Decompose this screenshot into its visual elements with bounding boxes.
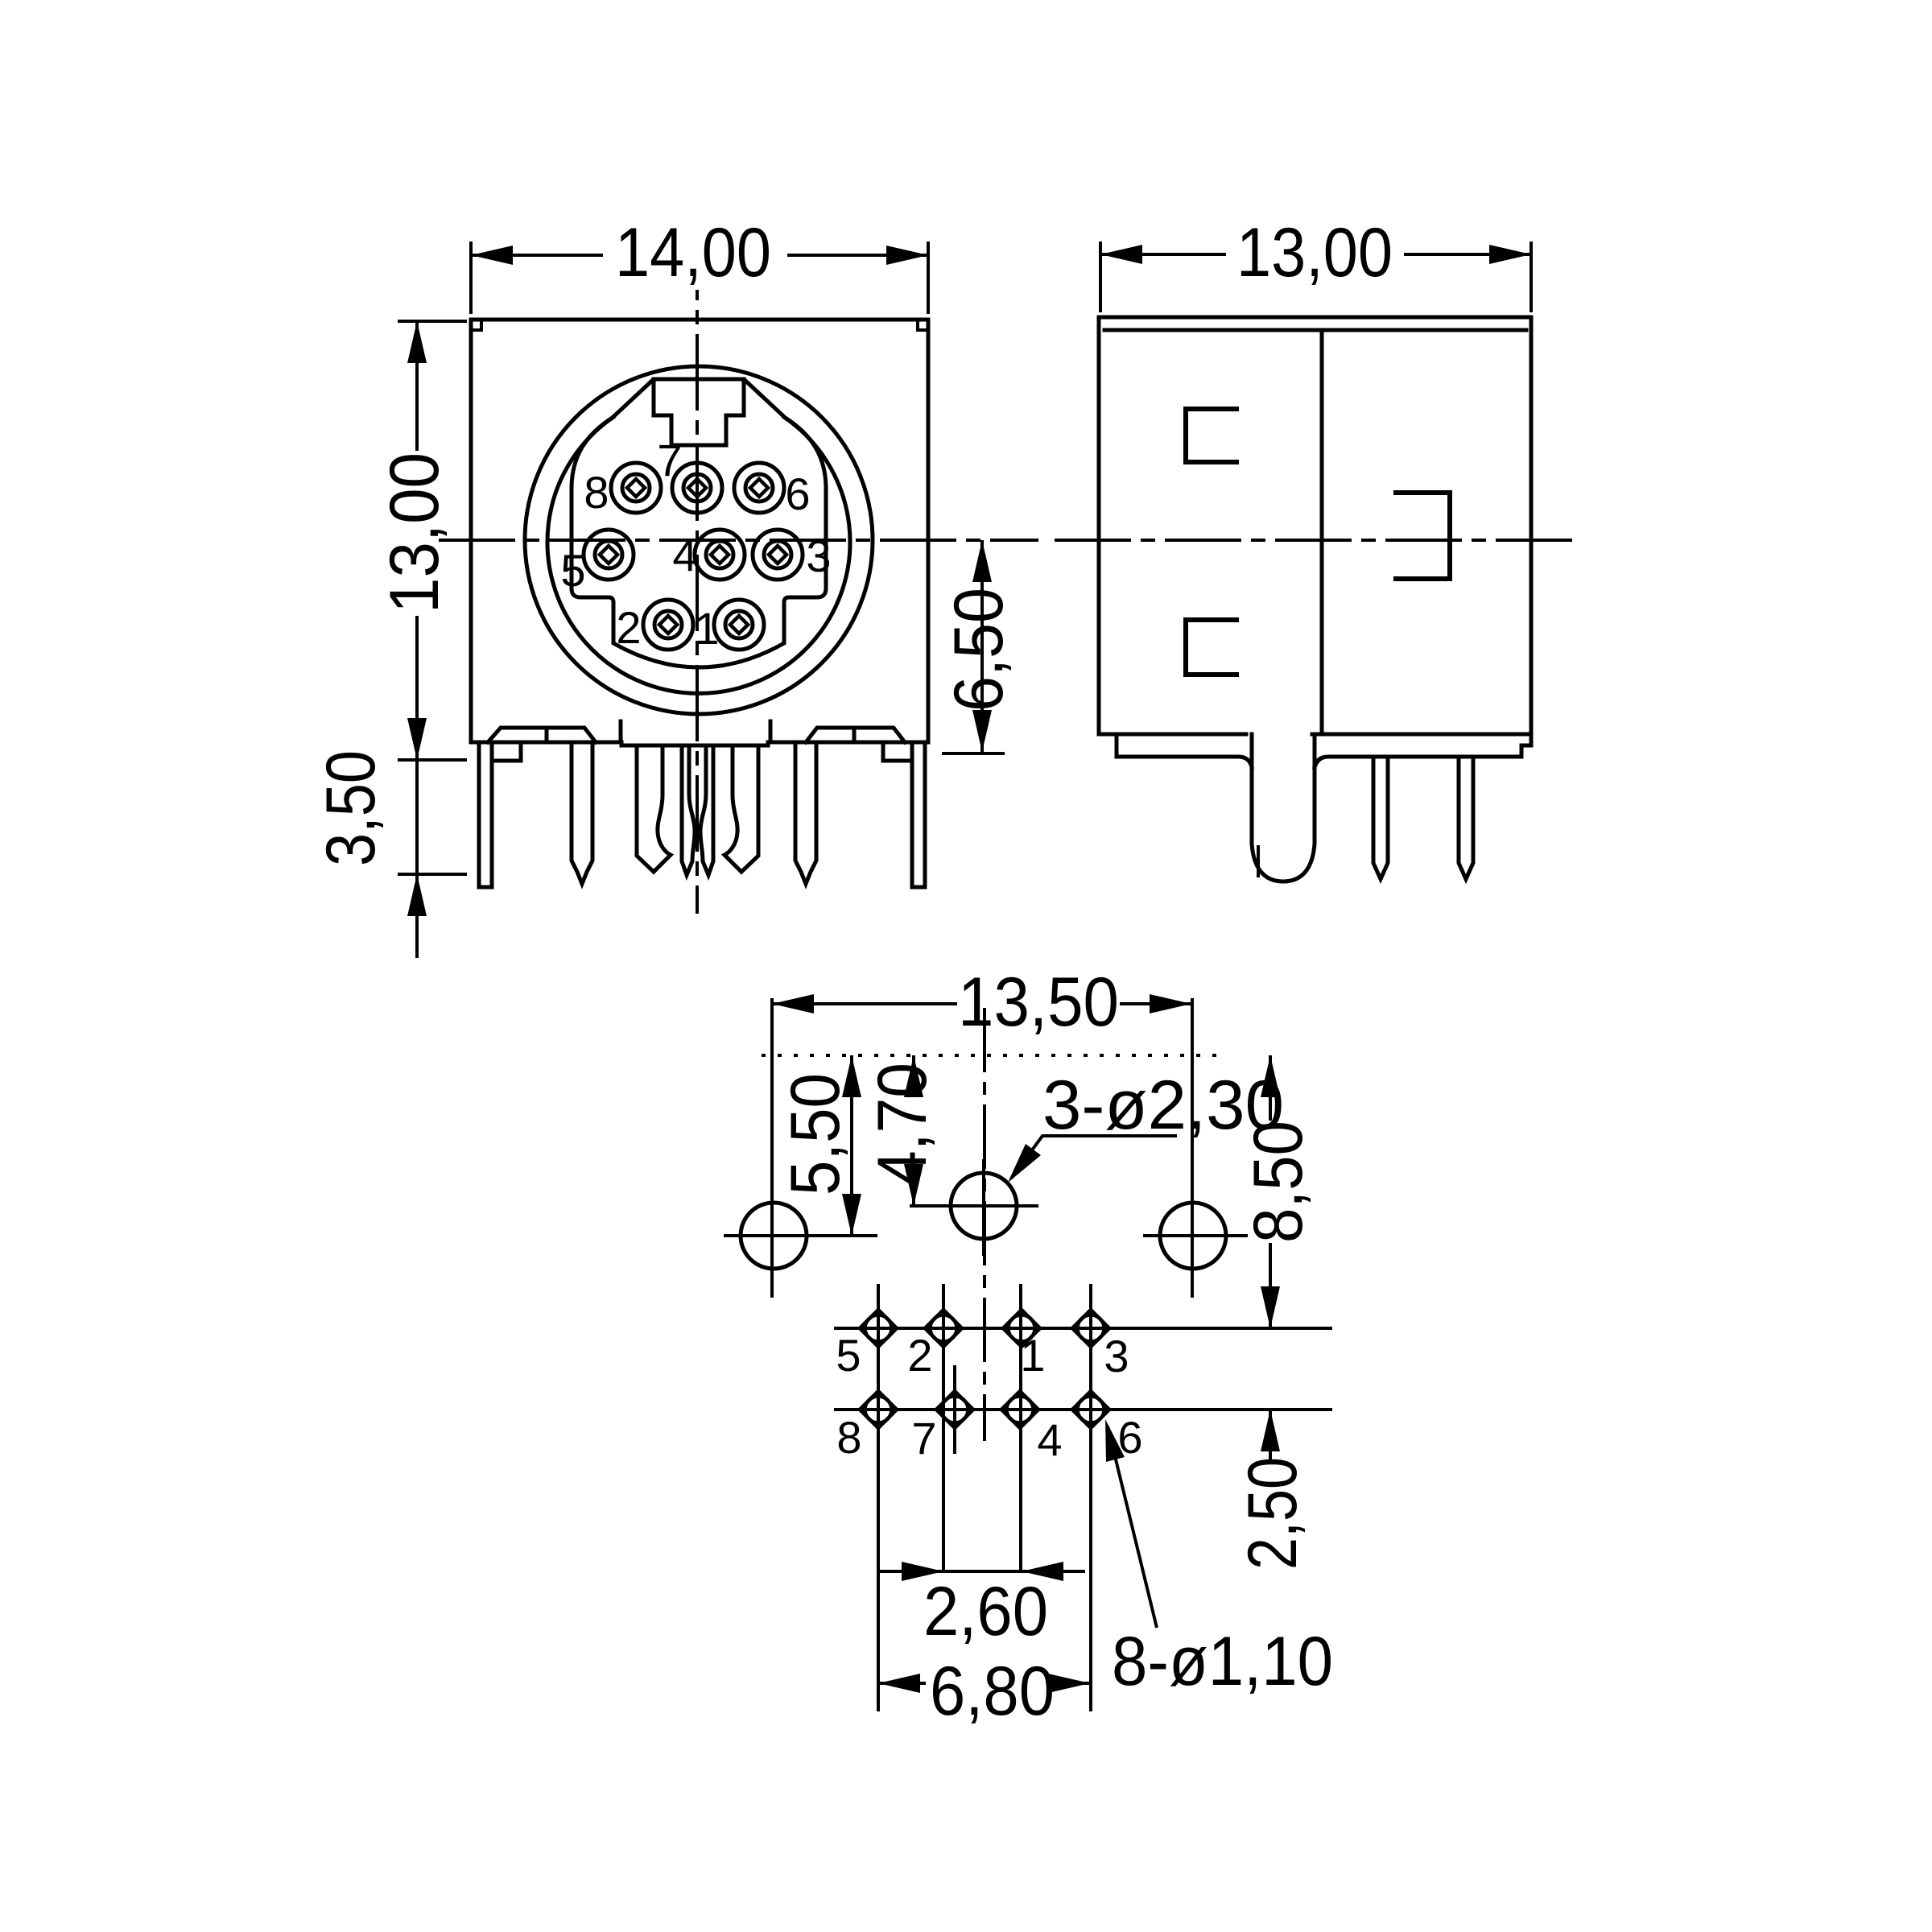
side body outline	[1099, 317, 1531, 742]
left mounting tab	[488, 728, 596, 742]
right solder pin	[795, 742, 816, 884]
svg-text:2,60: 2,60	[923, 1573, 1048, 1650]
svg-text:7: 7	[657, 435, 682, 485]
svg-text:7: 7	[911, 1413, 936, 1463]
right shield leg	[912, 742, 925, 887]
front horizontal centerline	[439, 539, 1038, 542]
dimension 13,00 (side top)	[1100, 242, 1531, 312]
leader 3-x2,30	[1011, 1136, 1177, 1179]
svg-text:5: 5	[836, 1330, 861, 1381]
key notch	[654, 379, 744, 445]
pad hole 3	[1046, 1310, 1332, 1347]
insulator roof	[612, 379, 786, 419]
side bracket lower-left	[1186, 620, 1236, 675]
svg-text:14,00: 14,00	[615, 214, 771, 291]
dimension 2,60	[878, 1570, 1085, 1573]
pad hole 7	[910, 1365, 999, 1454]
dimension 6,50 (front right)	[942, 540, 1005, 753]
side pin 1	[1373, 757, 1388, 879]
svg-text:6,80: 6,80	[930, 1653, 1055, 1730]
corner mark top-left	[471, 320, 481, 330]
pad hole 4	[976, 1391, 1064, 1428]
pin 6 socket	[734, 463, 784, 513]
dimension 8,50	[1269, 1055, 1272, 1328]
insulator keyed contour	[572, 417, 826, 667]
svg-text:3-ø2,30: 3-ø2,30	[1042, 1067, 1284, 1144]
center contact pin inner-left	[682, 745, 695, 875]
left shield leg	[479, 742, 492, 887]
svg-text:6: 6	[785, 469, 810, 519]
dimension 3,50 (front lower-left)	[398, 760, 467, 958]
dimension 6,80	[878, 1682, 1090, 1685]
side shield tab	[1252, 734, 1315, 881]
pad column line 1-4	[1019, 1284, 1022, 1571]
side horizontal centerline	[1055, 539, 1574, 542]
svg-text:13,00: 13,00	[376, 452, 453, 613]
svg-text:13,50: 13,50	[958, 964, 1119, 1041]
mounting hole middle	[910, 1159, 1038, 1256]
svg-text:13,00: 13,00	[1236, 214, 1393, 291]
center contact pin inner-right	[700, 745, 713, 875]
hidden edge tick left	[619, 721, 623, 742]
svg-text:5: 5	[560, 545, 585, 596]
construction dotted line	[762, 1054, 1219, 1057]
side bracket upper-left	[1186, 409, 1236, 462]
svg-text:8: 8	[584, 467, 609, 518]
dimension 5,50	[850, 1055, 853, 1236]
pad hole 1	[977, 1310, 1066, 1347]
front body outline	[471, 320, 928, 745]
pad column line 3-6	[1089, 1284, 1092, 1711]
leader 8-x1,10	[1108, 1426, 1157, 1628]
right mounting tab	[806, 728, 905, 742]
pad hole 2	[899, 1310, 988, 1347]
svg-text:2: 2	[907, 1330, 932, 1381]
hidden edge tick right	[769, 721, 773, 742]
svg-text:1: 1	[1020, 1330, 1045, 1381]
pad hole 5	[834, 1310, 923, 1347]
mounting hole right	[1143, 998, 1248, 1298]
svg-text:4: 4	[1037, 1414, 1062, 1465]
centerlines of front view	[439, 290, 1038, 914]
dimension 4,70	[912, 1055, 915, 1206]
svg-text:8-ø1,10: 8-ø1,10	[1112, 1623, 1333, 1700]
svg-text:4: 4	[672, 530, 697, 580]
center contact pin outer-right	[724, 745, 758, 872]
side top inner line	[1104, 328, 1526, 332]
svg-text:3,50: 3,50	[312, 750, 390, 866]
shell outer circle	[525, 366, 873, 714]
side flange left	[1117, 734, 1252, 767]
side flange right	[1315, 745, 1531, 767]
right leg notch	[883, 742, 912, 761]
side bracket right	[1396, 493, 1450, 579]
mounting hole left	[724, 998, 877, 1298]
svg-text:3: 3	[806, 530, 831, 581]
pad hole 8	[834, 1391, 923, 1428]
pin 2 socket	[643, 600, 693, 650]
svg-text:5,50: 5,50	[777, 1073, 854, 1195]
side pin 2	[1459, 757, 1473, 879]
bottom view vertical centerline	[983, 1008, 986, 1441]
corner mark top-right	[918, 320, 928, 330]
side divider line	[1320, 330, 1324, 734]
pin 5 socket	[584, 530, 634, 580]
dimension 13,00 (front left)	[398, 321, 467, 760]
pin 1 socket	[714, 600, 764, 650]
dimension 2,50	[1269, 1410, 1272, 1461]
svg-text:2: 2	[616, 602, 641, 653]
pad hole 6	[1046, 1391, 1332, 1428]
shell inner circle (gap at top for roof)	[547, 419, 850, 694]
dimension 14,00	[471, 242, 928, 314]
pin 8 socket	[611, 463, 661, 513]
dimension 13,50	[772, 1002, 1191, 1005]
svg-text:8: 8	[836, 1412, 861, 1463]
pad column line 2	[942, 1284, 945, 1571]
pin 3 socket	[753, 530, 803, 580]
svg-text:6,50: 6,50	[940, 588, 1018, 712]
pad column line 5-8	[877, 1284, 880, 1711]
side shield tab seam	[1257, 847, 1260, 876]
svg-text:4,70: 4,70	[864, 1063, 941, 1186]
center contact pin outer-left	[637, 745, 671, 872]
front vertical centerline	[696, 290, 699, 914]
left leg notch	[492, 742, 521, 761]
svg-text:3: 3	[1104, 1331, 1129, 1381]
svg-text:2,50: 2,50	[1234, 1457, 1311, 1570]
left solder pin	[572, 742, 592, 884]
pin 7 socket	[672, 463, 722, 513]
pin 4 socket	[695, 530, 745, 580]
